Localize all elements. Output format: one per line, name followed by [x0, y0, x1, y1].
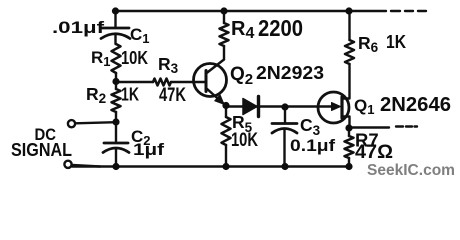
- diode: [243, 97, 259, 117]
- node R1-R2-R3: [112, 78, 119, 85]
- wire R3 branch: [116, 81, 153, 83]
- capacitor C2: [103, 122, 129, 167]
- svg-text:SeekIC.com: SeekIC.com: [367, 162, 455, 179]
- terminal DC bottom: [64, 161, 71, 168]
- wire R2 to node: [115, 112, 117, 122]
- svg-text:1μf: 1μf: [133, 140, 164, 159]
- node R5 bottom: [222, 163, 229, 170]
- transistor Q2: [194, 60, 227, 105]
- wire top rail: [113, 10, 386, 12]
- wire R1 to node: [115, 73, 117, 89]
- svg-text:2N2646: 2N2646: [380, 94, 451, 116]
- wire terminal to node: [76, 122, 117, 123]
- resistor R3: [153, 79, 171, 86]
- node R7 bottom: [345, 163, 352, 170]
- node Q2 emitter: [222, 102, 229, 109]
- resistor R1: [112, 44, 121, 73]
- capacitor C3: [272, 107, 297, 167]
- svg-text:0.1μf: 0.1μf: [290, 136, 335, 155]
- wire top rail dashed stub: [391, 10, 426, 12]
- svg-text:47K: 47K: [159, 85, 186, 106]
- wire diode row: [226, 105, 333, 107]
- node C3 bottom: [281, 163, 288, 170]
- svg-text:.01μf: .01μf: [52, 18, 104, 37]
- svg-text:1K: 1K: [386, 32, 406, 52]
- wire output tap B1: [349, 126, 389, 128]
- svg-text:2200: 2200: [258, 15, 303, 41]
- svg-text:10K: 10K: [121, 48, 148, 68]
- svg-text:47Ω: 47Ω: [355, 142, 393, 163]
- svg-text:1K: 1K: [121, 85, 139, 105]
- node diode-C3: [281, 103, 288, 110]
- node R4 top: [220, 7, 227, 14]
- svg-text:2N2923: 2N2923: [256, 63, 324, 83]
- resistor R5: [222, 106, 231, 167]
- terminal DC top: [68, 120, 75, 127]
- node C2 bottom: [112, 163, 119, 170]
- wire terminal to bottom rail: [72, 165, 100, 167]
- resistor R2: [112, 89, 121, 112]
- wire bottom rail: [72, 165, 349, 167]
- resistor R7: [345, 128, 354, 167]
- resistor R4: [220, 11, 229, 60]
- node R2-C2-input: [112, 118, 119, 125]
- node top-left: [112, 7, 119, 14]
- node R6 top: [345, 7, 352, 14]
- wire R3 to Q2 base: [171, 81, 206, 83]
- svg-text:10K: 10K: [231, 130, 258, 151]
- wire output dashed stub: [396, 125, 417, 127]
- capacitor C1: [101, 11, 130, 44]
- svg-text:SIGNAL: SIGNAL: [11, 139, 72, 160]
- node Q1 B1: [345, 124, 352, 131]
- resistor R6: [345, 11, 354, 64]
- transistor Q1 (UJT): [318, 64, 350, 128]
